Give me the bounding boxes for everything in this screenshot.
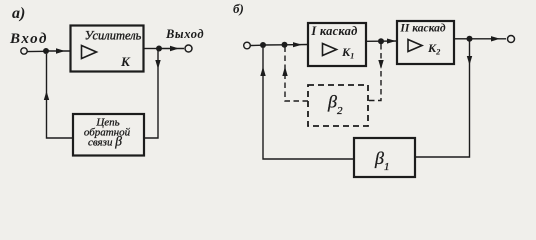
svg-text:Вход: Вход xyxy=(9,31,48,47)
wire stage II to node 4 xyxy=(454,38,470,40)
wire node2 to stage I with arrow xyxy=(285,44,309,46)
wire feedback output up to input node (with up arrow) xyxy=(47,54,74,138)
feedback block β2 (dashed) xyxy=(308,85,368,126)
wire node1 to node2 xyxy=(263,44,285,46)
wire node4 to output with arrow xyxy=(470,38,507,40)
output terminal circle (б) xyxy=(508,36,515,43)
stage I triangle symbol xyxy=(323,44,337,56)
node junction 3 (β2 tap) xyxy=(378,38,384,44)
svg-text:связи β: связи β xyxy=(88,134,122,149)
svg-text:К: К xyxy=(120,54,131,69)
wire stage I to node 3 xyxy=(366,40,381,42)
amplifier triangle symbol xyxy=(82,46,97,59)
stage II block (II каскад K2) xyxy=(397,21,454,64)
input terminal circle xyxy=(21,48,27,54)
node output junction xyxy=(156,46,162,52)
node junction 4 (β1 tap) xyxy=(467,36,473,42)
svg-text:II каскад: II каскад xyxy=(399,23,446,35)
svg-text:а): а) xyxy=(12,5,25,22)
wire node4 down to β1 (down arrow) xyxy=(415,39,470,157)
feedback block (Цепь обратной связи β) xyxy=(73,114,144,156)
node input junction xyxy=(43,48,49,54)
svg-text:Выход: Выход xyxy=(165,27,204,41)
feedback block β1 xyxy=(354,138,415,177)
node junction 1 (β1 return) xyxy=(260,42,266,48)
wire node to amplifier with arrow xyxy=(46,50,70,52)
wire node3 to stage II with arrow xyxy=(381,40,397,42)
stage II triangle symbol xyxy=(408,40,422,52)
dashed wire β2 output up to node2 (up arrow) xyxy=(285,48,308,102)
svg-text:б): б) xyxy=(233,1,244,16)
wire β1 output up to node1 (up arrow) xyxy=(263,48,354,159)
svg-text:I каскад: I каскад xyxy=(310,24,357,38)
wire input to node xyxy=(28,50,47,52)
wire output node down to feedback (with down arrow) xyxy=(144,49,158,139)
wire amplifier output to node xyxy=(144,48,159,50)
wire input to node 1 xyxy=(251,44,264,46)
wire node to output with arrow xyxy=(159,48,184,50)
node junction 2 (β2 return) xyxy=(282,42,288,48)
svg-text:Усилитель: Усилитель xyxy=(85,29,142,43)
dashed wire node3 down to β2 (down arrow) xyxy=(368,44,381,101)
stage I block (I каскад K1) xyxy=(308,23,366,66)
input terminal circle (б) xyxy=(244,42,251,49)
amplifier block (Усилитель K) xyxy=(71,26,144,72)
output terminal circle xyxy=(185,45,192,52)
